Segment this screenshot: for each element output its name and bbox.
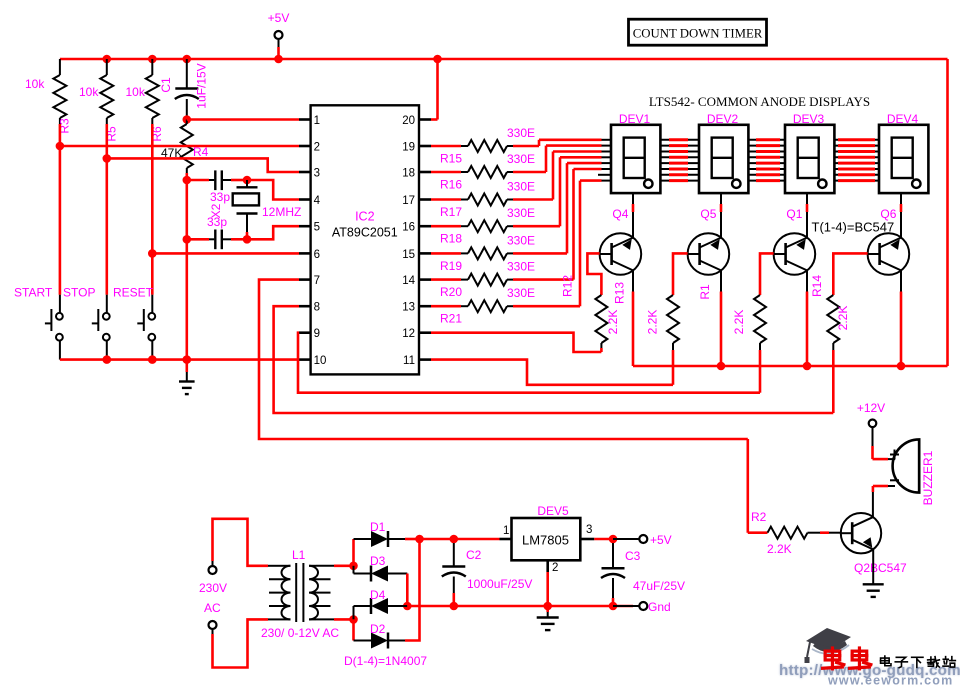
svg-text:R21: R21 xyxy=(440,312,462,326)
pin 5 xyxy=(299,225,311,228)
node C3 top xyxy=(609,535,618,544)
svg-text:DEV2: DEV2 xyxy=(707,112,739,126)
svg-text:R16: R16 xyxy=(440,178,462,192)
pin 19 xyxy=(419,145,431,148)
svg-text:RESET: RESET xyxy=(113,286,154,300)
ground symbol regulator xyxy=(546,606,549,612)
svg-text:7: 7 xyxy=(314,275,320,287)
svg-text:12: 12 xyxy=(402,328,415,340)
transformer core xyxy=(295,563,297,622)
node C2 bottom xyxy=(450,602,459,611)
svg-text:L1: L1 xyxy=(292,548,306,562)
wire rail to pin 20 xyxy=(436,59,439,120)
wire Q2 emitter to ground xyxy=(872,550,874,585)
svg-text:10: 10 xyxy=(314,355,327,367)
pin 20 xyxy=(419,118,431,121)
node xtal left bottom xyxy=(183,235,192,244)
wire +5V top rail xyxy=(60,58,948,61)
pin 2 xyxy=(299,145,311,148)
resistor R6 10k xyxy=(151,59,153,75)
svg-text:1: 1 xyxy=(503,525,509,537)
svg-text:2.2K: 2.2K xyxy=(606,310,620,335)
svg-text:15: 15 xyxy=(402,249,415,261)
resistor R15 330E xyxy=(431,145,461,148)
svg-text:R19: R19 xyxy=(440,259,462,273)
wire display segment bus xyxy=(602,139,612,141)
pin 3 xyxy=(299,171,311,174)
pin 17 xyxy=(419,198,431,201)
svg-text:230V: 230V xyxy=(199,581,227,595)
node D1/D2 + xyxy=(415,535,424,544)
svg-text:13: 13 xyxy=(402,302,415,314)
svg-text:+5V: +5V xyxy=(650,533,672,547)
node R6 pin6 junction xyxy=(148,249,157,258)
wire R17 to display bus xyxy=(552,152,555,200)
svg-text:20: 20 xyxy=(402,115,415,127)
wire R14 bottom to pin8 bus xyxy=(832,350,835,413)
svg-text:330E: 330E xyxy=(507,126,535,140)
node rail R6 xyxy=(148,55,157,64)
wire pin9 net xyxy=(298,333,760,393)
svg-text:Q1: Q1 xyxy=(786,207,802,221)
transistor Q6 BC547 xyxy=(868,233,910,275)
watermark url text xyxy=(779,662,960,688)
svg-text:R1: R1 xyxy=(698,284,712,300)
watermark dianzi xiazaizhan text xyxy=(881,656,891,666)
resistor R20 330E xyxy=(431,278,461,281)
node R3 pin2 junction xyxy=(56,142,65,151)
pin 13 xyxy=(419,305,431,308)
wire xtal bottom to pin 5 xyxy=(247,226,299,239)
wire pin6 row xyxy=(152,252,299,255)
node D3/D4 gnd xyxy=(403,602,412,611)
svg-text:230/ 0-12V AC: 230/ 0-12V AC xyxy=(261,626,339,640)
resistor R17 330E xyxy=(431,198,461,201)
transformer secondary xyxy=(309,566,318,620)
wire Q4 emitter to rail xyxy=(632,270,634,291)
resistor R1 2.2K xyxy=(760,253,774,295)
resistor R12 2.2K xyxy=(587,253,601,295)
resistor R19 330E xyxy=(431,252,461,255)
wire R18 to display bus xyxy=(559,157,562,226)
svg-text:330E: 330E xyxy=(507,152,535,166)
node emitter Q5 xyxy=(717,362,726,371)
node secondary bottom xyxy=(349,615,358,624)
ground symbol left xyxy=(186,360,189,372)
resistor R4 47K xyxy=(181,124,193,168)
buzzer BUZZER1 xyxy=(893,439,920,492)
node C3 bottom xyxy=(609,602,618,611)
svg-text:R18: R18 xyxy=(440,232,462,246)
display DEV1 LTS542 xyxy=(611,125,660,193)
pin 16 xyxy=(419,225,431,228)
svg-text:D1: D1 xyxy=(370,520,386,534)
wire +5V to rail xyxy=(278,39,280,47)
resistor R2 2.2K xyxy=(746,439,749,533)
transistor Q4 BC547 xyxy=(600,233,642,275)
svg-text:2.2K: 2.2K xyxy=(732,310,746,335)
wire Q1 emitter to rail xyxy=(806,270,808,291)
capacitor C1 1uF/15V xyxy=(186,59,188,89)
node rail STOP xyxy=(103,355,112,364)
wire +5V right edge down to emitter rail xyxy=(946,59,949,366)
node rail R5 xyxy=(103,55,112,64)
capacitor C3a 33p top xyxy=(187,179,209,182)
terminal Gnd out xyxy=(639,602,647,610)
terminal 230V top xyxy=(209,566,217,574)
buzzer plus mark xyxy=(894,450,896,460)
svg-text:11: 11 xyxy=(403,355,415,367)
IC U1 IC2 AT89C2051 xyxy=(311,105,419,374)
node rail pin20 feed xyxy=(433,55,442,64)
wire buzzer to Q2 collector xyxy=(888,485,895,487)
transistor Q1 BC547 xyxy=(774,233,816,275)
wire pin1 row xyxy=(187,118,299,121)
node C1 bottom / pin1 row xyxy=(183,115,192,124)
svg-text:LTS542- COMMON ANODE DISPLAYS: LTS542- COMMON ANODE DISPLAYS xyxy=(649,94,870,109)
svg-text:R2: R2 xyxy=(751,510,767,524)
svg-text:Q2BC547: Q2BC547 xyxy=(854,561,907,575)
svg-text:T(1-4)=BC547: T(1-4)=BC547 xyxy=(812,220,895,235)
svg-text:330E: 330E xyxy=(507,233,535,247)
pin 14 xyxy=(419,278,431,281)
svg-text:+5V: +5V xyxy=(268,11,290,25)
svg-text:33p: 33p xyxy=(207,215,227,229)
capacitor C2 1000uF/25V xyxy=(453,543,455,566)
wire Q5 emitter to rail xyxy=(720,270,722,291)
node xtal right top xyxy=(243,176,252,185)
pin 8 xyxy=(299,305,311,308)
svg-text:6: 6 xyxy=(314,249,320,261)
capacitor C3b 33p bottom xyxy=(186,180,189,239)
pin 9 xyxy=(299,331,311,334)
svg-text:Gnd: Gnd xyxy=(648,600,671,614)
wire DEV2 common pin xyxy=(720,193,722,204)
capacitor C3 47uF/25V xyxy=(612,543,614,568)
wire R5 column down xyxy=(106,124,109,295)
wire mains bottom xyxy=(212,629,214,634)
pin 11 xyxy=(419,358,431,361)
title box COUNT DOWN TIMER xyxy=(629,19,767,45)
wire ground rail to pin 10 xyxy=(60,358,299,361)
resistor R5 10k xyxy=(106,59,108,75)
wire R3 column down xyxy=(59,124,62,295)
terminal +5V out xyxy=(639,535,647,543)
resistor R21 330E xyxy=(431,305,461,308)
diode D3 1N4007 xyxy=(354,573,372,575)
wire gnd bus xyxy=(407,605,633,608)
wire pin2 row xyxy=(60,145,299,148)
wire pin11 net xyxy=(431,360,673,385)
transistor Q5 BC547 xyxy=(688,233,730,275)
svg-text:1000uF/25V: 1000uF/25V xyxy=(467,577,532,591)
svg-text:+12V: +12V xyxy=(857,401,885,415)
display DEV4 LTS542 xyxy=(879,125,928,193)
svg-text:33p: 33p xyxy=(210,190,230,204)
wire R21 to display bus xyxy=(579,181,582,307)
watermark graduation cap logo xyxy=(805,628,852,663)
wire DEV3 common pin xyxy=(806,193,808,204)
svg-text:R14: R14 xyxy=(810,275,824,297)
wire R20 to display bus xyxy=(572,169,575,280)
svg-text:4: 4 xyxy=(314,195,321,207)
wire R16 to display bus xyxy=(545,146,548,172)
+5V terminal top xyxy=(275,31,283,39)
svg-text:D(1-4)=1N4007: D(1-4)=1N4007 xyxy=(344,654,427,668)
svg-text:C3: C3 xyxy=(625,549,641,563)
svg-text:330E: 330E xyxy=(507,206,535,220)
svg-text:1uF/15V: 1uF/15V xyxy=(195,63,209,108)
wire emitter +5V rail xyxy=(633,365,948,368)
svg-text:10k: 10k xyxy=(25,77,45,91)
svg-text:R12: R12 xyxy=(561,275,575,297)
wire R15 to display bus xyxy=(538,140,541,146)
pin 2 xyxy=(546,560,549,572)
wire secondary bottom xyxy=(316,618,334,620)
pin 7 xyxy=(299,278,311,281)
crystal X2 12MHZ xyxy=(246,180,248,187)
ground symbol Q2 xyxy=(863,583,884,585)
node xtal right bottom xyxy=(243,235,252,244)
wire pin3 to +5V xyxy=(594,538,613,541)
svg-text:STOP: STOP xyxy=(63,286,95,300)
terminal +12V xyxy=(869,420,877,428)
watermark chong chong characters xyxy=(823,648,844,669)
svg-text:47uF/25V: 47uF/25V xyxy=(633,579,685,593)
pin 4 xyxy=(299,198,311,201)
wire Q6 emitter to rail xyxy=(900,270,902,291)
wire DEV4 common pin xyxy=(900,193,902,204)
resistor R14 2.2K xyxy=(833,253,867,295)
transistor Q2 BC547 xyxy=(841,513,881,553)
svg-text:D2: D2 xyxy=(370,622,386,636)
svg-text:2: 2 xyxy=(552,562,558,574)
svg-text:DEV4: DEV4 xyxy=(887,112,919,126)
node C2 top xyxy=(450,535,459,544)
pin 1 xyxy=(299,118,311,121)
svg-text:COUNT DOWN TIMER: COUNT DOWN TIMER xyxy=(633,27,763,41)
node emitter Q1 xyxy=(803,362,812,371)
svg-text:D3: D3 xyxy=(370,554,386,568)
node emitter Q6 xyxy=(897,362,906,371)
svg-text:2.2K: 2.2K xyxy=(836,306,850,331)
node secondary top xyxy=(349,562,358,571)
svg-text:330E: 330E xyxy=(507,286,535,300)
resistor R18 330E xyxy=(431,225,461,228)
wire pin12 net xyxy=(431,333,601,352)
svg-text:C1: C1 xyxy=(159,77,173,93)
svg-text:3: 3 xyxy=(314,168,320,180)
svg-text:Q5: Q5 xyxy=(700,207,716,221)
svg-text:IC2: IC2 xyxy=(355,210,375,224)
diode D2 1N4007 xyxy=(354,640,372,642)
svg-text:330E: 330E xyxy=(507,180,535,194)
svg-text:www.eeworm.com: www.eeworm.com xyxy=(827,674,953,687)
svg-text:10k: 10k xyxy=(79,85,99,99)
svg-text:DEV3: DEV3 xyxy=(793,112,825,126)
svg-text:D4: D4 xyxy=(370,588,386,602)
svg-text:AC: AC xyxy=(204,601,221,615)
node reg gnd xyxy=(543,602,552,611)
node R5 pin3 junction xyxy=(103,154,112,163)
svg-text:330E: 330E xyxy=(507,260,535,274)
svg-text:12MHZ: 12MHZ xyxy=(262,205,301,219)
svg-text:10k: 10k xyxy=(126,85,146,99)
wire R6 column down xyxy=(151,124,154,295)
svg-text:8: 8 xyxy=(314,302,320,314)
wire +12V to buzzer xyxy=(872,427,874,446)
svg-text:2.2K: 2.2K xyxy=(767,542,792,556)
svg-text:18: 18 xyxy=(402,168,415,180)
wire R13 bottom to pin11 bus xyxy=(672,350,675,385)
svg-text:DEV1: DEV1 xyxy=(619,112,651,126)
wire R1 bottom to pin9 bus xyxy=(759,350,762,393)
pin 6 xyxy=(299,252,311,255)
svg-text:C2: C2 xyxy=(466,548,482,562)
wire sec top to D1/D3 xyxy=(352,539,355,566)
svg-text:R13: R13 xyxy=(613,282,627,304)
svg-text:1: 1 xyxy=(314,115,320,127)
wire sec bottom to D4/D2 xyxy=(353,606,355,619)
wire pin3 row xyxy=(107,158,299,172)
resistor R16 330E xyxy=(431,171,461,174)
wire secondary top xyxy=(316,565,334,567)
resistor R13 2.2K xyxy=(673,253,688,295)
display DEV2 LTS542 xyxy=(699,125,748,193)
svg-text:14: 14 xyxy=(402,275,415,287)
wire R19 to display bus xyxy=(566,163,569,253)
pin 12 xyxy=(419,331,431,334)
display DEV3 LTS542 xyxy=(785,125,834,193)
svg-text:19: 19 xyxy=(402,142,415,154)
pin 10 xyxy=(299,358,311,361)
wire C1 column to ground rail xyxy=(186,239,189,359)
svg-text:2.2K: 2.2K xyxy=(646,310,660,335)
resistor R3 10k xyxy=(59,59,61,75)
wire mains top xyxy=(212,561,214,566)
pin 1 xyxy=(500,538,512,541)
node rail ground xyxy=(183,355,192,364)
svg-text:2: 2 xyxy=(314,142,320,154)
svg-text:R20: R20 xyxy=(440,285,462,299)
node xtal left top xyxy=(183,176,192,185)
pin 3 xyxy=(580,538,594,541)
wire D2 cathode up to + rail xyxy=(405,539,420,641)
svg-text:R15: R15 xyxy=(440,152,462,166)
node rail RESET xyxy=(148,355,157,364)
svg-text:16: 16 xyxy=(402,222,415,234)
svg-text:9: 9 xyxy=(314,328,320,340)
pin 18 xyxy=(419,171,431,174)
buzzer minus mark xyxy=(890,479,899,481)
wire + rail to LM7805 xyxy=(420,538,500,541)
svg-text:BUZZER1: BUZZER1 xyxy=(921,450,935,505)
wire pin7 net xyxy=(259,280,748,439)
svg-text:R17: R17 xyxy=(440,205,462,219)
terminal 230V bottom xyxy=(209,621,217,629)
svg-text:5: 5 xyxy=(314,222,320,234)
diode D1 1N4007 xyxy=(354,538,372,540)
svg-text:Q4: Q4 xyxy=(612,207,628,221)
node rail C1 xyxy=(183,55,192,64)
svg-text:DEV5: DEV5 xyxy=(537,504,569,518)
wire D3 anode down to gnd bus xyxy=(406,574,409,607)
pin 15 xyxy=(419,252,431,255)
svg-text:17: 17 xyxy=(402,195,415,207)
svg-text:AT89C2051: AT89C2051 xyxy=(332,226,398,240)
wire pin8 net xyxy=(274,306,834,413)
svg-text:START: START xyxy=(14,286,53,300)
node +5V rail junction xyxy=(274,55,283,64)
diode D4 1N4007 xyxy=(354,605,372,607)
wire DEV1 common pin xyxy=(632,193,634,204)
wire xtal top to pin 4 xyxy=(247,180,299,200)
svg-text:LM7805: LM7805 xyxy=(522,533,569,548)
svg-text:3: 3 xyxy=(586,524,592,536)
regulator DEV5 LM7805 xyxy=(512,518,581,560)
